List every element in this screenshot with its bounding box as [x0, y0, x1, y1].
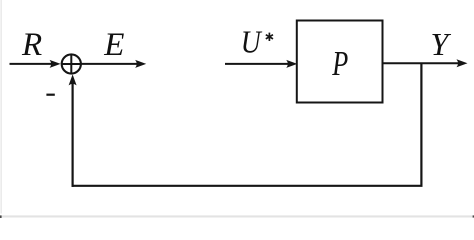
- page edge artifact left: [0, 0, 2, 214]
- arrowhead into block P: [286, 60, 297, 68]
- wire feedback vertical left: [71, 82, 73, 187]
- label asterisk superscript: [266, 33, 273, 41]
- svg-text:P: P: [332, 44, 349, 83]
- arrowhead up into summing junction: [69, 74, 77, 85]
- arrowhead into summing junction: [50, 60, 61, 68]
- block P: [297, 21, 383, 103]
- arrowhead Y wire end: [457, 59, 468, 67]
- svg-text:U: U: [241, 24, 263, 60]
- page rule bottom: [0, 215, 474, 217]
- arrowhead E wire end: [135, 60, 146, 68]
- wire R input: [10, 63, 53, 65]
- wire E output of summing junction: [81, 63, 139, 65]
- summing junction S1: [62, 54, 81, 73]
- corner dot bottom-left: [0, 215, 2, 218]
- corner dot bottom-right: [473, 215, 474, 217]
- wire U* input: [225, 63, 290, 65]
- wire feedback horizontal bottom: [72, 185, 423, 187]
- wire feedback vertical right: [420, 63, 422, 186]
- wire Y output: [384, 62, 461, 64]
- svg-text:R: R: [21, 27, 42, 63]
- svg-text:E: E: [103, 27, 124, 63]
- svg-text:Y: Y: [431, 26, 452, 62]
- minus sign at feedback input: [46, 94, 54, 96]
